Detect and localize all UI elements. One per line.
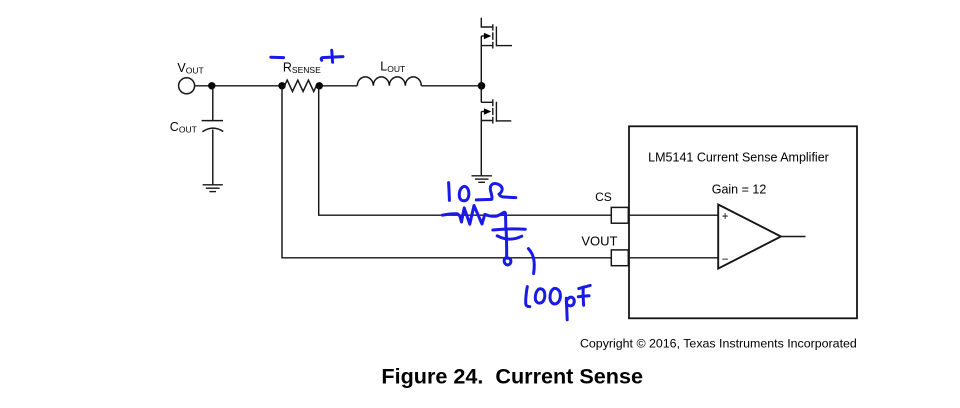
annotation minus polarity mark: [271, 56, 284, 59]
wire CS pin to op-amp: [628, 214, 718, 216]
svg-text:Gain = 12: Gain = 12: [712, 183, 767, 197]
pin VOUT box: [611, 250, 628, 266]
pin CS box: [611, 207, 628, 223]
wire COUT top lead: [212, 86, 214, 120]
annotation resistor squiggle on CS line: [442, 206, 506, 230]
svg-text:VOUT: VOUT: [177, 61, 203, 76]
wire op-amp output: [781, 236, 806, 238]
annotation capacitor lead with loop on VOUT line: [504, 231, 511, 265]
wire RSENSE to LOUT: [322, 85, 357, 87]
svg-text:−: −: [722, 254, 729, 266]
svg-text:CS: CS: [595, 190, 612, 204]
ground power stage: [472, 176, 492, 183]
annotation stray stroke: [528, 249, 534, 274]
wire Q2 source to ground: [480, 121, 482, 176]
wire CS sense line vertical: [319, 86, 612, 215]
svg-text:LM5141 Current Sense Amplifier: LM5141 Current Sense Amplifier: [648, 150, 829, 164]
node RSENSE right dot: [316, 82, 323, 89]
wire VOUT pin to op-amp: [628, 257, 718, 259]
ground under COUT: [203, 185, 223, 192]
inductor LOUT: [357, 77, 421, 86]
node junction dot at COUT tap: [208, 82, 215, 89]
resistor RSENSE: [285, 80, 317, 91]
transistor Q2 low-side NMOS: [481, 99, 511, 123]
wire Q1 source to SW node: [480, 46, 482, 86]
op-amp U1: [718, 205, 781, 269]
annotation 100pF value: [526, 287, 530, 307]
wire VOUT sense line vertical: [282, 86, 611, 258]
svg-text:+: +: [722, 211, 729, 223]
svg-text:Copyright © 2016, Texas Instru: Copyright © 2016, Texas Instruments Inco…: [580, 336, 857, 350]
wire COUT bottom lead: [212, 130, 214, 185]
annotation capacitor bottom plate: [497, 236, 522, 239]
svg-text:LOUT: LOUT: [380, 59, 405, 74]
capacitor COUT: [202, 121, 224, 132]
wire SW node to Q2 drain: [480, 86, 482, 103]
transistor Q1 high-side NMOS: [481, 18, 512, 49]
annotation plus polarity mark: [321, 57, 343, 61]
annotation capacitor top plate: [493, 229, 526, 230]
wire LOUT to switch node: [421, 85, 481, 87]
wire VOUT terminal to main rail: [195, 85, 282, 87]
svg-text:Figure 24. Current Sense: Figure 24. Current Sense: [381, 364, 643, 389]
terminal VOUT: [179, 78, 195, 94]
node SW junction dot: [478, 82, 486, 90]
svg-text:COUT: COUT: [170, 120, 197, 135]
IC box LM5141: [629, 126, 857, 318]
annotation 10 ohm value: [447, 183, 451, 201]
svg-text:RSENSE: RSENSE: [283, 61, 321, 76]
node RSENSE left dot: [278, 82, 285, 89]
blue handwritten annotations: [271, 50, 590, 320]
svg-text:VOUT: VOUT: [581, 234, 617, 249]
